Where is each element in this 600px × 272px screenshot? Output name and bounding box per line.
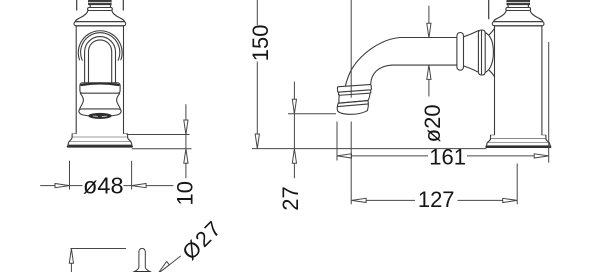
dimension 127: line and arrows [366, 199, 503, 201]
dimension 150: bottom arrow [255, 134, 259, 149]
dimension ø20: bottom arrow [427, 65, 431, 80]
front view: spout tube inner wall (U) [89, 40, 112, 83]
extension line: spout outlet level [288, 113, 336, 115]
front view: bell shoulder [75, 11, 124, 22]
svg-text:27: 27 [278, 186, 303, 210]
dimension 10: top arrow [184, 120, 188, 135]
front view: spout tube outer wall [85, 37, 116, 83]
side view: nozzle end cap [337, 101, 368, 115]
side view: spout bend inner curve [371, 65, 392, 84]
side view: bell shoulder [494, 11, 543, 22]
leader line for Ø27 [163, 256, 181, 270]
side view: nozzle ring lower band [338, 90, 371, 95]
side view: bonnet ring [508, 5, 529, 8]
side view: spout bead ring [457, 33, 464, 71]
svg-text:127: 127 [418, 187, 455, 212]
side view: body right side [541, 26, 543, 136]
dimension 161: right extension line [548, 42, 550, 163]
side view: bonnet band [506, 8, 531, 11]
dimension ø20: vertical line [428, 6, 430, 97]
side view: nozzle right side [368, 94, 370, 101]
dimension 27: top arrow [292, 99, 296, 114]
front view: shoulder rim torus [74, 22, 126, 26]
bottom view: reference line [70, 248, 126, 250]
front view: handle prong tip left [76, 0, 78, 10]
side view: body left side [494, 26, 496, 136]
extension line: deck level left (front) [132, 148, 192, 150]
side view: trumpet cone bottom [464, 66, 479, 72]
front view: nozzle collar top face (dark) [82, 83, 119, 85]
front view: base bottom edge (heavy) [68, 146, 132, 148]
side view: handle stem stack [507, 0, 530, 5]
svg-text:10: 10 [172, 181, 197, 205]
dimension 10: vertical line [185, 104, 187, 178]
svg-text:ø48: ø48 [83, 173, 124, 199]
side view: base step [491, 134, 546, 136]
extension line: base step level (front) [127, 134, 190, 136]
side view: collar ring band [478, 30, 485, 75]
side view: trumpet cone top [464, 31, 479, 37]
dimension ø20: top arrow [427, 23, 431, 38]
side view: collar ring inner line [481, 31, 483, 75]
side view: bulb-to-body fillet bottom [489, 70, 494, 77]
side view: nozzle left side [338, 95, 340, 103]
svg-text:Ø27: Ø27 [178, 216, 227, 265]
bottom view: inlet stub flare right [145, 268, 151, 272]
front view: base plinth [68, 142, 132, 145]
front view: body left side [75, 26, 77, 134]
front view: body right side [123, 26, 125, 134]
front view: spout arch second arc [81, 33, 120, 61]
dimension 10: bottom arrow [184, 149, 188, 164]
dimension ø48: right leader and arrow [124, 185, 132, 187]
front view: body top edge [76, 25, 123, 27]
bottom view: vertical arrow [70, 263, 72, 272]
dimension 127: right extension line [516, 164, 518, 205]
side view: spout tube bottom line [392, 64, 457, 66]
deck line (countertop) [252, 148, 486, 150]
dimension 27: bottom arrow [292, 149, 296, 164]
bottom view: inlet stub neck [139, 248, 145, 267]
dimension ø48: left leader and arrow [40, 185, 55, 187]
side view: spout bend outer curve [346, 38, 401, 86]
bottom view: flange silhouette at image edge (heavy) [134, 271, 151, 272]
front view: bonnet band [88, 8, 113, 11]
side view: shoulder rim torus [492, 22, 544, 26]
side view: base ogee flare [487, 139, 549, 143]
side view: body top edge [495, 25, 542, 27]
side view: base bottom edge (heavy) [486, 146, 550, 148]
dimension 161: line and arrows [352, 155, 535, 157]
front view: handle prong tip right [122, 0, 124, 10]
front view: spout arch outer arc [78, 31, 122, 60]
front view: nozzle collar band [80, 83, 120, 93]
svg-text:150: 150 [248, 25, 273, 62]
dimension ø48: right extension line [131, 161, 133, 190]
side view: nozzle ring band [337, 84, 371, 92]
leader arrow for Ø27 [158, 262, 170, 272]
side view: base plinth [486, 143, 550, 146]
dimension texts [83, 25, 466, 265]
front view: base ogee flare [69, 137, 131, 142]
dimension 27: vertical line [293, 82, 295, 179]
side view: bulb-to-body fillet top [489, 28, 494, 35]
front view: nozzle cone right side [117, 93, 121, 109]
bottom view: inlet stub flare left [133, 268, 139, 272]
front view: aerator face (dark ellipse) [89, 113, 112, 118]
side view: ball joint bulb [485, 33, 493, 73]
svg-text:161: 161 [429, 144, 466, 169]
front view: nozzle cone left side [80, 93, 84, 109]
dimension ø48: left extension line [69, 161, 71, 190]
front view: bonnet ring [90, 5, 111, 8]
side view: spout tube top line [400, 37, 457, 39]
dimension 127: left extension line [350, 0, 352, 204]
dimension 161: left extension line [336, 122, 338, 161]
front view: handle stem stack (dark rings, cut at top) [89, 0, 112, 5]
front view: base step [72, 133, 127, 135]
side view: handle prong tip [488, 0, 490, 19]
dimension 150: vertical line [256, 0, 258, 134]
front view: nozzle bottom lip [79, 109, 121, 117]
svg-text:ø20: ø20 [420, 104, 445, 142]
